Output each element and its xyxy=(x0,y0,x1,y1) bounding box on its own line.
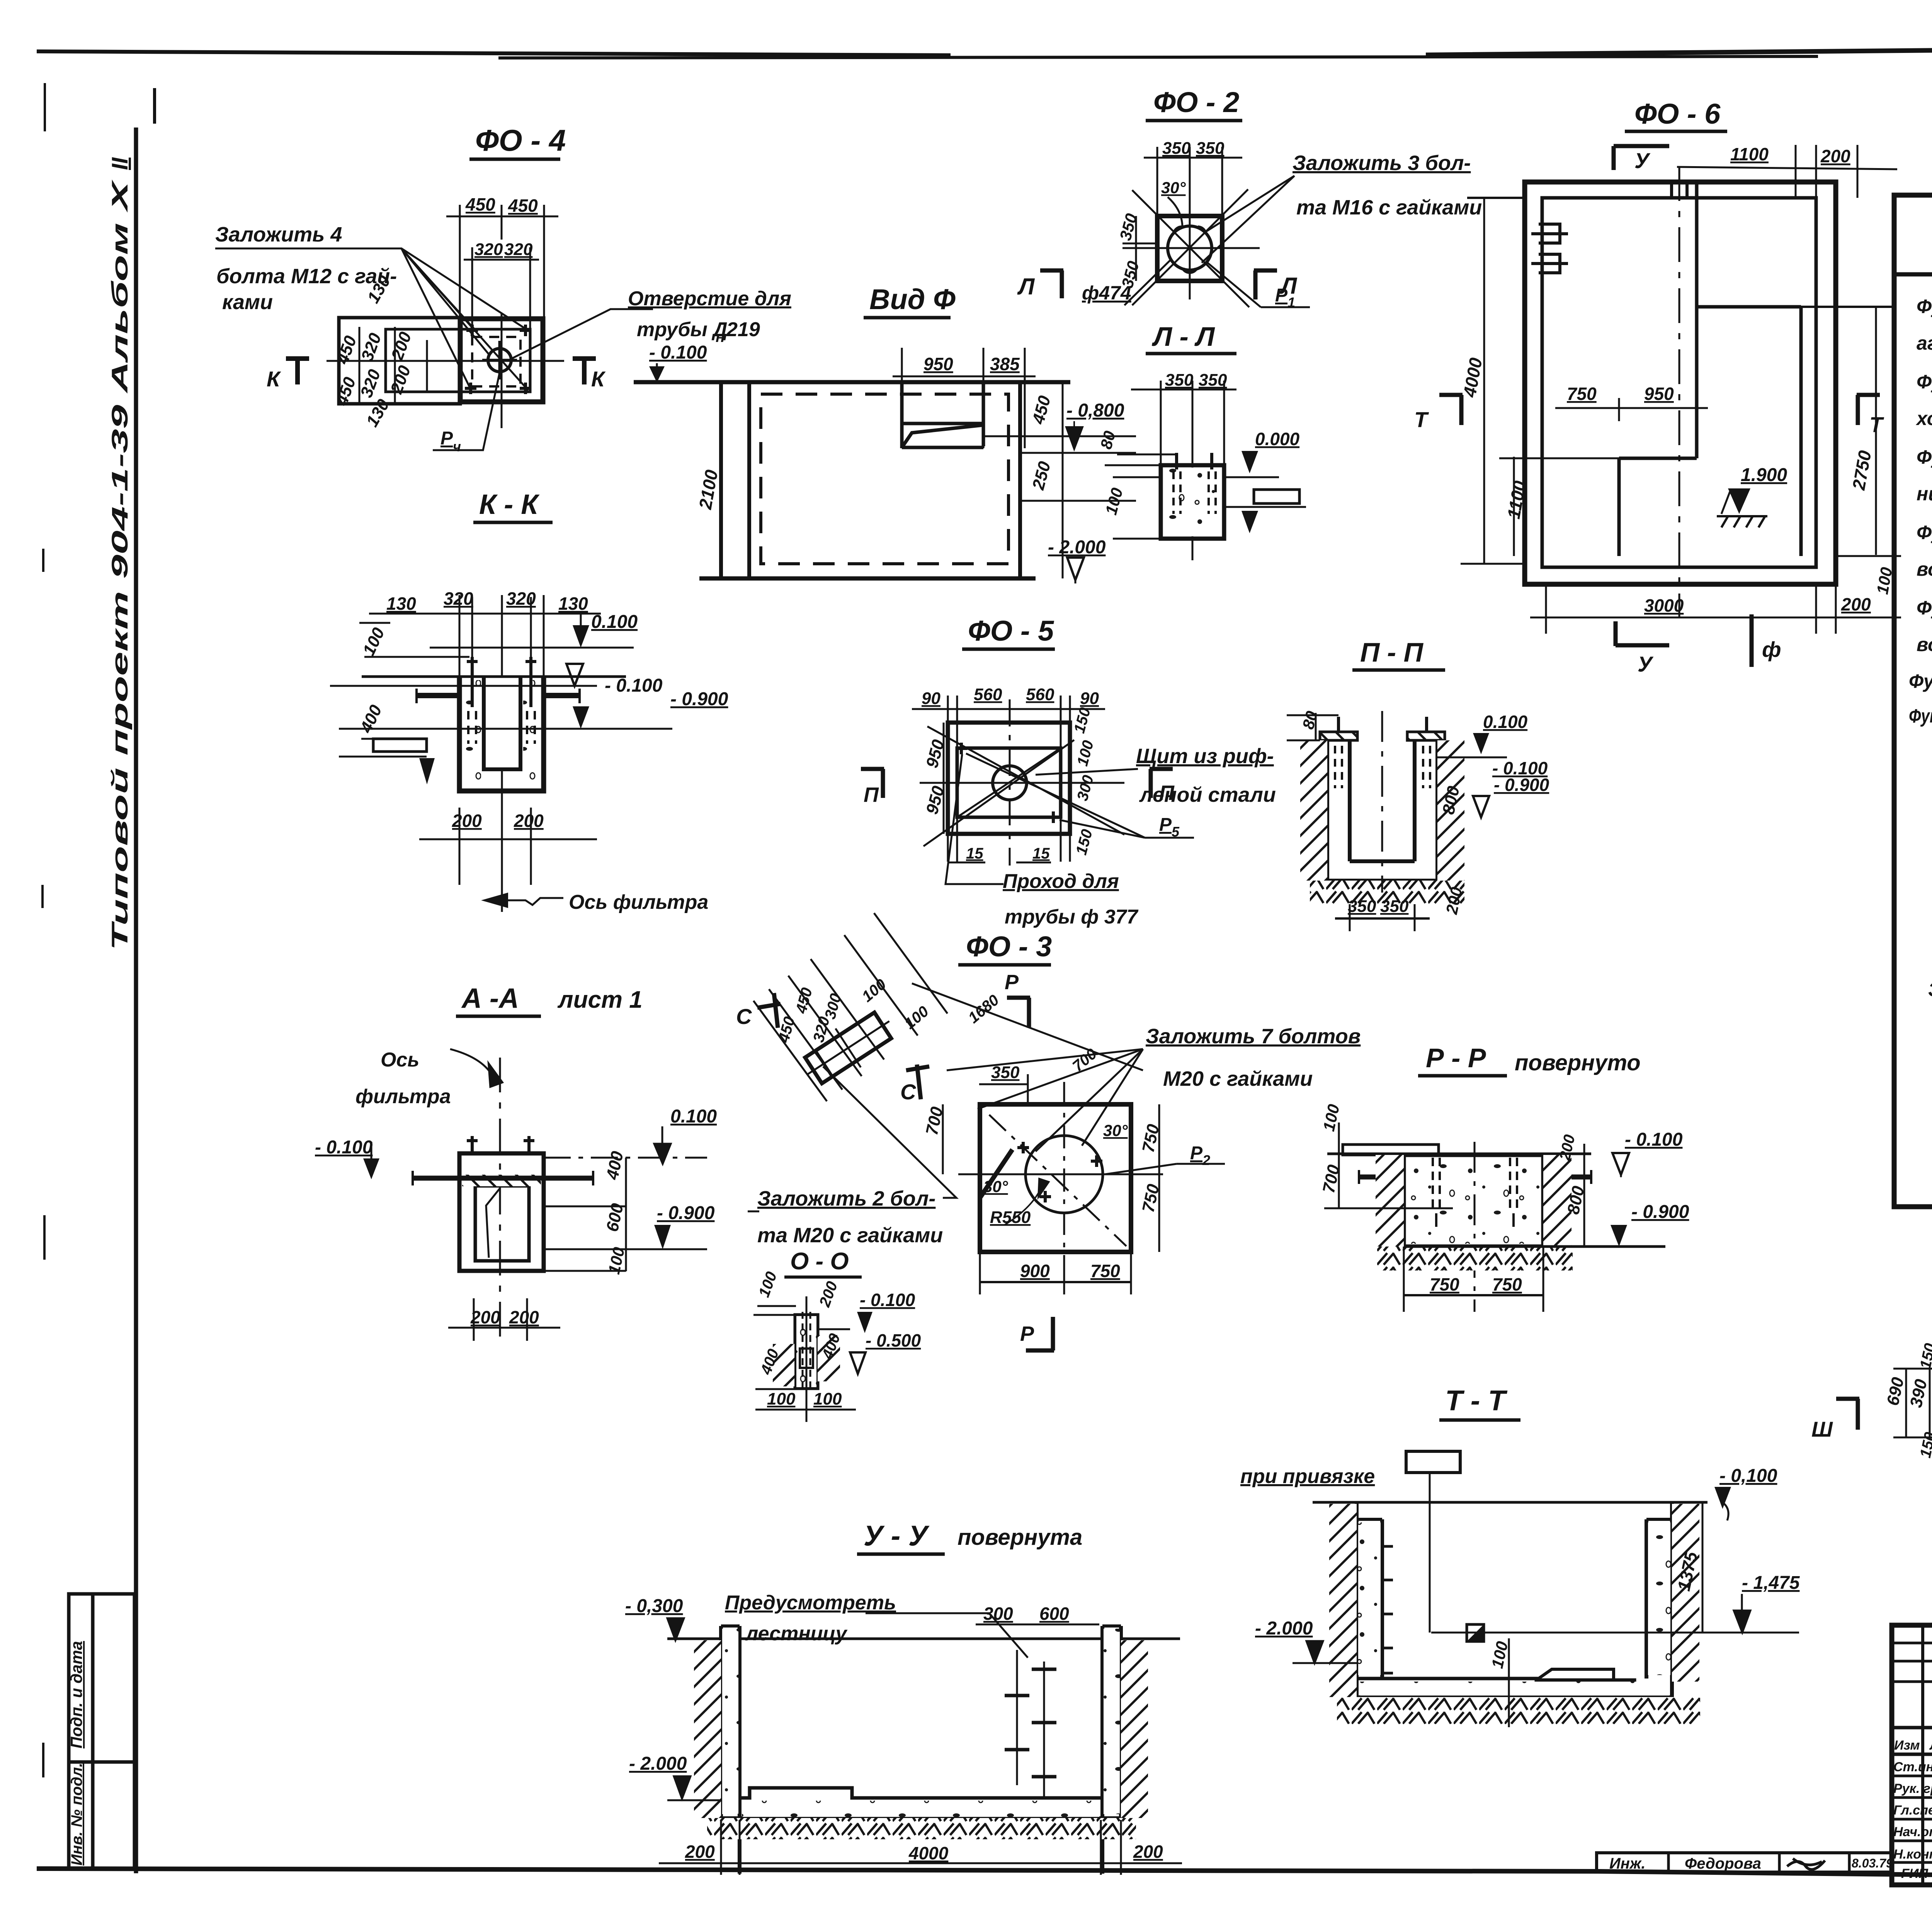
square xyxy=(1157,216,1222,281)
svg-text:350: 350 xyxy=(991,1063,1020,1082)
notch line to table xyxy=(1801,306,1893,308)
left rows xyxy=(1892,1643,1932,1862)
svg-text:Фундамент под фильтр: Фундамент под фильтр xyxy=(1917,522,1932,543)
table frame xyxy=(1894,195,1932,1207)
svg-text:Т: Т xyxy=(1414,407,1429,432)
leader fan from note to bolts xyxy=(215,248,528,390)
plan outer rectangle right square xyxy=(460,319,543,402)
border bottom line xyxy=(37,1869,1932,1883)
dim 320 320 xyxy=(464,247,539,328)
svg-text:750: 750 xyxy=(1090,1261,1120,1281)
svg-text:560: 560 xyxy=(1026,685,1054,704)
bottom slab xyxy=(1357,1679,1536,1697)
svg-text:0.100: 0.100 xyxy=(670,1106,717,1127)
plan left rectangle xyxy=(339,318,460,404)
block xyxy=(1404,1155,1543,1247)
circle xyxy=(1168,226,1212,270)
svg-text:- 0.900: - 0.900 xyxy=(1631,1202,1689,1222)
anchor plate dashed square around pipe xyxy=(472,337,520,386)
long diagonal extension to P mark xyxy=(912,983,1143,1070)
right wall xyxy=(1102,1626,1121,1874)
foundation U cross-section xyxy=(459,677,544,791)
step notch xyxy=(902,382,983,448)
svg-text:320: 320 xyxy=(504,240,533,259)
svg-text:Р: Р xyxy=(1159,815,1172,835)
svg-text:- 0.900: - 0.900 xyxy=(1494,775,1549,795)
step vertical xyxy=(1617,458,1621,556)
axis arrow + label xyxy=(504,898,563,905)
anchor bars xyxy=(1359,1175,1591,1180)
svg-text:Р: Р xyxy=(1020,1322,1034,1345)
wall speckles xyxy=(722,1629,738,1814)
main square xyxy=(980,1104,1131,1252)
bolt stubs above xyxy=(1338,717,1427,732)
svg-text:С: С xyxy=(736,1004,752,1029)
svg-text:Р - Р: Р - Р xyxy=(1426,1043,1486,1073)
svg-text:3000: 3000 xyxy=(1644,595,1684,616)
svg-text:Т - Т: Т - Т xyxy=(1445,1384,1508,1417)
svg-text:воздушный: воздушный xyxy=(1917,558,1932,580)
svg-text:0.100: 0.100 xyxy=(591,612,638,632)
svg-text:200: 200 xyxy=(1841,594,1871,614)
small box above xyxy=(1406,1451,1460,1473)
svg-text:100: 100 xyxy=(813,1389,842,1408)
svg-text:15: 15 xyxy=(1032,845,1050,862)
svg-text:ФО - 6: ФО - 6 xyxy=(1634,98,1721,130)
hatching left/right/below xyxy=(1300,740,1327,881)
svg-text:Заложить 3 бол-: Заложить 3 бол- xyxy=(1293,151,1471,175)
svg-text:Нач.отд.: Нач.отд. xyxy=(1893,1825,1932,1839)
left dim vertical lines xyxy=(359,327,427,404)
svg-text:200: 200 xyxy=(514,811,544,831)
svg-text:- 0.100: - 0.100 xyxy=(315,1137,373,1158)
svg-text:Р: Р xyxy=(1190,1143,1203,1163)
svg-text:Заложить 4: Заложить 4 xyxy=(215,223,342,246)
svg-text:0.000: 0.000 xyxy=(1255,429,1300,449)
table body rows xyxy=(1909,296,1932,1172)
svg-text:н: н xyxy=(716,328,725,345)
svg-text:Т: Т xyxy=(1869,412,1884,437)
svg-text:II: II xyxy=(107,157,133,170)
hatched top band xyxy=(462,1175,541,1186)
svg-text:Фундамент под компрессорны: Фундамент под компрессорный xyxy=(1917,296,1932,317)
P mark top xyxy=(1007,998,1030,1028)
svg-text:350: 350 xyxy=(1348,897,1376,916)
section mark U top xyxy=(1614,146,1669,170)
svg-text:П - П: П - П xyxy=(1360,637,1424,667)
svg-text:ками: ками xyxy=(222,291,273,314)
centerline xyxy=(1381,711,1383,893)
border top line xyxy=(37,51,951,55)
foundation block xyxy=(1161,465,1224,539)
speckles in walls xyxy=(1358,1522,1381,1675)
inner wall rectangle xyxy=(1542,198,1816,567)
svg-text:ф: ф xyxy=(1762,637,1781,662)
horizontal centerline xyxy=(1431,1632,1708,1634)
svg-text:П: П xyxy=(864,783,879,806)
svg-text:200: 200 xyxy=(470,1307,500,1327)
hatching sides xyxy=(773,1344,794,1386)
svg-text:Фундамент под концевой: Фундамент под концевой xyxy=(1917,371,1932,393)
right side dims xyxy=(983,382,1136,578)
left dims 100 400 xyxy=(359,623,469,739)
ground line xyxy=(667,1638,1180,1640)
title underline xyxy=(469,158,560,161)
svg-text:90: 90 xyxy=(1080,689,1099,708)
notch right vertical xyxy=(1799,307,1803,556)
diagonals xyxy=(1132,189,1249,307)
svg-text:900: 900 xyxy=(1020,1261,1050,1281)
header labels xyxy=(1894,1737,1932,1753)
svg-text:350: 350 xyxy=(1165,371,1194,389)
hatching xyxy=(694,1640,721,1818)
right wall xyxy=(1018,382,1022,578)
svg-text:750: 750 xyxy=(1430,1274,1459,1294)
svg-text:холодильник ХРК 9/8: холодильник ХРК 9/8 xyxy=(1915,408,1932,429)
Sh section marks xyxy=(1836,1399,1859,1430)
centerline xyxy=(499,1058,501,1339)
svg-text:Инв. № подл.: Инв. № подл. xyxy=(68,1763,85,1866)
svg-text:Л - Л: Л - Л xyxy=(1151,321,1215,352)
svg-text:К: К xyxy=(267,367,281,391)
ground line xyxy=(1327,1153,1591,1155)
svg-text:450: 450 xyxy=(465,194,495,214)
svg-text:Фундамент под воздухосбор: Фундамент под воздухосбор- xyxy=(1917,446,1932,468)
svg-text:320: 320 xyxy=(474,240,503,259)
svg-text:Подп. и дата: Подп. и дата xyxy=(67,1641,85,1748)
bolts xyxy=(1177,453,1212,469)
inner rect xyxy=(957,748,1061,817)
bolts marks xyxy=(465,325,531,394)
svg-text:1100: 1100 xyxy=(1730,144,1769,164)
level flag to vid-f top xyxy=(656,363,658,377)
block xyxy=(459,1153,544,1271)
svg-text:фильтра: фильтра xyxy=(355,1085,451,1108)
svg-text:450: 450 xyxy=(508,196,538,216)
svg-text:У - У: У - У xyxy=(864,1520,930,1552)
svg-text:100: 100 xyxy=(767,1389,796,1408)
hatching xyxy=(1376,1155,1404,1247)
svg-text:болта М12 с гай-: болта М12 с гай- xyxy=(216,265,397,288)
bolts dashed in walls xyxy=(1335,746,1430,788)
svg-text:130: 130 xyxy=(386,594,416,614)
top surface line xyxy=(362,675,626,678)
svg-text:219: 219 xyxy=(726,318,760,341)
centerline dash-dot xyxy=(1679,166,1680,618)
border left line xyxy=(134,128,138,1873)
hatching xyxy=(1329,1504,1357,1697)
svg-text:Фундамент под возбудительный: Фундамент под возбудительный агрегат xyxy=(1909,705,1932,727)
svg-text:ч: ч xyxy=(453,439,461,454)
svg-text:- 1,475: - 1,475 xyxy=(1742,1573,1800,1593)
svg-text:200: 200 xyxy=(1133,1842,1163,1862)
sump square xyxy=(1467,1624,1484,1641)
svg-text:У: У xyxy=(1638,652,1654,676)
svg-text:П: П xyxy=(1159,781,1175,804)
small column section xyxy=(795,1315,818,1388)
svg-text:Гл.спец.: Гл.спец. xyxy=(1893,1803,1932,1818)
svg-text:О - О: О - О xyxy=(790,1248,849,1275)
svg-text:200: 200 xyxy=(685,1842,715,1862)
dim 450 450 top xyxy=(446,205,558,328)
crosshairs xyxy=(958,1082,1163,1296)
svg-text:ГИП: ГИП xyxy=(1901,1866,1929,1881)
svg-text:та М20 с гайками: та М20 с гайками xyxy=(757,1224,943,1247)
svg-text:Р: Р xyxy=(1005,971,1019,994)
svg-text:200: 200 xyxy=(509,1307,539,1327)
svg-text:Заложить 7 болтов: Заложить 7 болтов xyxy=(1146,1025,1361,1048)
svg-text:2: 2 xyxy=(1202,1152,1210,1168)
bolt marks left wall xyxy=(1531,224,1568,273)
svg-text:30°: 30° xyxy=(1103,1121,1128,1139)
left reference lines xyxy=(1105,454,1177,477)
svg-text:- 0,300: - 0,300 xyxy=(625,1596,683,1616)
center dash lines xyxy=(920,699,1124,866)
svg-text:Проход для: Проход для xyxy=(1003,870,1119,893)
svg-text:Закладной элемент: Закладной элемент xyxy=(1928,979,1932,1000)
rotated dim texts xyxy=(775,976,1100,1075)
svg-text:- 0,800: - 0,800 xyxy=(1066,400,1124,421)
inner plate rectangle xyxy=(386,329,530,392)
right wall xyxy=(1646,1502,1672,1697)
svg-text:30°: 30° xyxy=(1161,179,1186,197)
circle xyxy=(1026,1136,1103,1213)
P mark bottom xyxy=(1026,1317,1054,1350)
svg-text:агрегат 305 ВП 20/8: агрегат 305 ВП 20/8 xyxy=(1917,332,1932,354)
bolts dashed xyxy=(1433,1158,1517,1213)
svg-text:200: 200 xyxy=(1820,146,1850,166)
bottom slab with step xyxy=(740,1788,1101,1798)
svg-text:Щит из риф-: Щит из риф- xyxy=(1136,745,1274,768)
tilted dim lines fan xyxy=(753,913,947,1101)
leader to pipe circle xyxy=(510,309,653,359)
svg-text:560: 560 xyxy=(974,685,1002,704)
small block at left with flag xyxy=(373,739,427,752)
bolts on plate xyxy=(1017,1142,1102,1202)
crosshair xyxy=(1122,149,1260,299)
step detail xyxy=(1536,1669,1614,1680)
ladders xyxy=(1017,1650,1044,1797)
svg-text:130: 130 xyxy=(558,594,588,614)
scan edge dashes left xyxy=(43,83,45,1777)
top line xyxy=(634,380,1070,384)
svg-text:- 0.100: - 0.100 xyxy=(1625,1129,1683,1150)
left columns verticals xyxy=(1923,1625,1932,1885)
svg-text:Ст.инж.: Ст.инж. xyxy=(1893,1760,1932,1774)
bottom line xyxy=(699,577,1036,581)
top caps hatched xyxy=(1320,732,1357,740)
svg-text:Вид Ф: Вид Ф xyxy=(869,283,956,315)
centerline xyxy=(1474,1142,1476,1312)
svg-text:Н.контр.: Н.контр. xyxy=(1893,1847,1932,1862)
plate outline xyxy=(948,723,1070,834)
section mark K left xyxy=(286,359,309,384)
inner diagonal line xyxy=(486,1188,500,1258)
svg-text:- 0.100: - 0.100 xyxy=(649,342,707,363)
svg-text:Типовой проект 904-1-39 А: Типовой проект 904-1-39 Альбом Х xyxy=(107,179,133,951)
svg-text:0.100: 0.100 xyxy=(1483,712,1528,732)
leader fan from note xyxy=(947,1049,1143,1151)
step horizontal left xyxy=(1619,457,1697,460)
svg-text:ф474: ф474 xyxy=(1082,282,1131,304)
svg-text:при привязке: при привязке xyxy=(1240,1465,1375,1488)
left wall verticals xyxy=(721,382,749,578)
svg-text:950: 950 xyxy=(1644,384,1674,404)
pipe cross ticks xyxy=(482,341,517,379)
ground line xyxy=(1313,1501,1708,1504)
svg-text:750: 750 xyxy=(1492,1274,1522,1294)
bolt dashed embeds xyxy=(468,711,535,744)
svg-text:- 2.000: - 2.000 xyxy=(629,1753,687,1774)
svg-text:Р: Р xyxy=(1275,285,1288,306)
svg-text:- 2.000: - 2.000 xyxy=(1255,1618,1313,1639)
svg-text:1.900: 1.900 xyxy=(1741,465,1787,485)
left slab xyxy=(1343,1145,1439,1155)
bolt centerline xyxy=(806,1296,808,1422)
svg-text:Фундамент под продувочный ба: Фундамент под продувочный бак xyxy=(1909,670,1932,692)
left margin vertical caption xyxy=(107,157,133,951)
leader line left xyxy=(1467,197,1525,199)
section mark F bottom xyxy=(1750,614,1754,667)
svg-text:Р: Р xyxy=(440,428,453,449)
section marks T xyxy=(1439,395,1463,425)
bottom line extension xyxy=(1404,1245,1665,1248)
svg-text:Изм: Изм xyxy=(1894,1738,1920,1753)
leader fan xyxy=(1202,176,1294,263)
inner walls xyxy=(475,1186,529,1261)
svg-text:ФО - 3: ФО - 3 xyxy=(966,930,1052,963)
svg-text:Л: Л xyxy=(1017,274,1035,299)
tilted plate xyxy=(794,1002,902,1094)
svg-text:Инж.: Инж. xyxy=(1609,1855,1646,1872)
svg-text:- 0.100: - 0.100 xyxy=(605,675,663,696)
svg-text:4000: 4000 xyxy=(908,1843,949,1863)
svg-text:Предусмотреть: Предусмотреть xyxy=(725,1592,896,1614)
svg-text:350: 350 xyxy=(1162,139,1191,158)
svg-text:У: У xyxy=(1634,148,1651,173)
svg-text:15: 15 xyxy=(966,845,983,862)
notch horizontal right xyxy=(1697,305,1801,309)
section marks L xyxy=(1040,270,1063,298)
svg-text:ФО - 2: ФО - 2 xyxy=(1153,86,1239,118)
left bottom cell: Инв. № подл. xyxy=(69,1762,134,1869)
svg-text:воздушный: воздушный xyxy=(1917,634,1932,655)
left bottom cell: Подп. и дата xyxy=(69,1594,134,1762)
svg-text:С: С xyxy=(900,1080,917,1104)
svg-text:лист 1: лист 1 xyxy=(557,986,643,1013)
svg-text:8.03.79: 8.03.79 xyxy=(1852,1856,1893,1870)
circle xyxy=(993,766,1027,800)
section mark K right xyxy=(573,359,596,384)
svg-text:ФО - 4: ФО - 4 xyxy=(475,123,566,157)
bottom slab xyxy=(1327,861,1437,881)
svg-text:М20 с гайками: М20 с гайками xyxy=(1163,1067,1313,1090)
outer frame xyxy=(1892,1625,1932,1885)
svg-text:200: 200 xyxy=(452,811,482,831)
svg-text:К - К: К - К xyxy=(479,489,540,520)
svg-text:та М16 с гайками: та М16 с гайками xyxy=(1296,196,1482,219)
bolt notches on circle xyxy=(1175,227,1205,272)
anchor bar thick xyxy=(417,693,580,698)
outer rectangle xyxy=(1525,182,1836,584)
svg-text:950: 950 xyxy=(923,354,953,374)
partition vertical upper xyxy=(1695,182,1699,458)
left wall xyxy=(1327,739,1350,861)
svg-text:385: 385 xyxy=(990,354,1020,374)
left rotated dims 450/320/200 stack xyxy=(332,272,415,430)
thick partial edges xyxy=(980,1150,1012,1198)
svg-text:Ш: Ш xyxy=(1811,1417,1833,1441)
svg-text:трубы ф 377: трубы ф 377 xyxy=(1005,906,1139,928)
svg-text:Фундамент под фильтр: Фундамент под фильтр xyxy=(1917,597,1932,619)
section mark U bottom xyxy=(1616,621,1669,646)
centerlines of plan xyxy=(327,314,564,428)
dashed inner rect xyxy=(761,394,1009,564)
svg-text:30°: 30° xyxy=(983,1177,1009,1196)
svg-text:Рук. гр.: Рук. гр. xyxy=(1893,1781,1932,1796)
svg-text:А -А: А -А xyxy=(461,983,519,1014)
bolts xyxy=(956,743,1059,823)
P section marks xyxy=(861,769,884,798)
svg-text:- 2.000: - 2.000 xyxy=(1048,537,1106,558)
svg-text:Ось фильтра: Ось фильтра xyxy=(569,891,708,913)
svg-text:- 0.900: - 0.900 xyxy=(670,689,728,709)
svg-text:повернута: повернута xyxy=(957,1525,1082,1550)
anchor bar xyxy=(413,1176,593,1181)
svg-text:ник В-3,2: ник В-3,2 xyxy=(1917,483,1932,505)
svg-text:350: 350 xyxy=(1196,139,1225,158)
right wall xyxy=(1415,739,1437,861)
pipe hole circle xyxy=(488,349,511,372)
svg-text:Федорова: Федорова xyxy=(1685,1855,1761,1872)
svg-text:Отверстие для: Отверстие для xyxy=(628,287,791,310)
svg-text:повернуто: повернуто xyxy=(1515,1050,1641,1075)
svg-text:К: К xyxy=(591,367,606,391)
left wall xyxy=(721,1626,740,1874)
svg-text:- 0.100: - 0.100 xyxy=(860,1290,915,1310)
concrete speckles in walls xyxy=(462,680,481,788)
svg-text:Ось: Ось xyxy=(381,1049,419,1071)
svg-text:ФО - 5: ФО - 5 xyxy=(968,615,1054,647)
svg-text:350: 350 xyxy=(1380,897,1409,916)
small anchor square xyxy=(800,1349,813,1368)
top wall break ticks xyxy=(1672,180,1687,199)
svg-text:750: 750 xyxy=(1567,384,1597,404)
svg-text:600: 600 xyxy=(1039,1604,1069,1624)
dim extension verticals xyxy=(459,595,544,912)
left wall xyxy=(1357,1502,1382,1697)
bolts on top xyxy=(467,1136,534,1155)
svg-text:лестницу: лестницу xyxy=(745,1622,848,1645)
svg-text:350: 350 xyxy=(1199,371,1227,389)
ladder rungs left wall xyxy=(1370,1546,1393,1673)
svg-text:- 0,100: - 0,100 xyxy=(1719,1466,1777,1486)
X diagonals xyxy=(923,726,1124,846)
right small block xyxy=(1254,490,1299,503)
bolts above top xyxy=(467,657,536,707)
svg-text:300: 300 xyxy=(983,1604,1013,1624)
svg-text:- 0.500: - 0.500 xyxy=(866,1330,921,1350)
svg-text:трубы Д: трубы Д xyxy=(637,318,728,341)
svg-text:90: 90 xyxy=(922,689,940,708)
signature rows xyxy=(1893,1759,1932,1881)
svg-text:- 0.900: - 0.900 xyxy=(657,1203,715,1223)
svg-text:Заложить 2 бол-: Заложить 2 бол- xyxy=(757,1187,935,1210)
